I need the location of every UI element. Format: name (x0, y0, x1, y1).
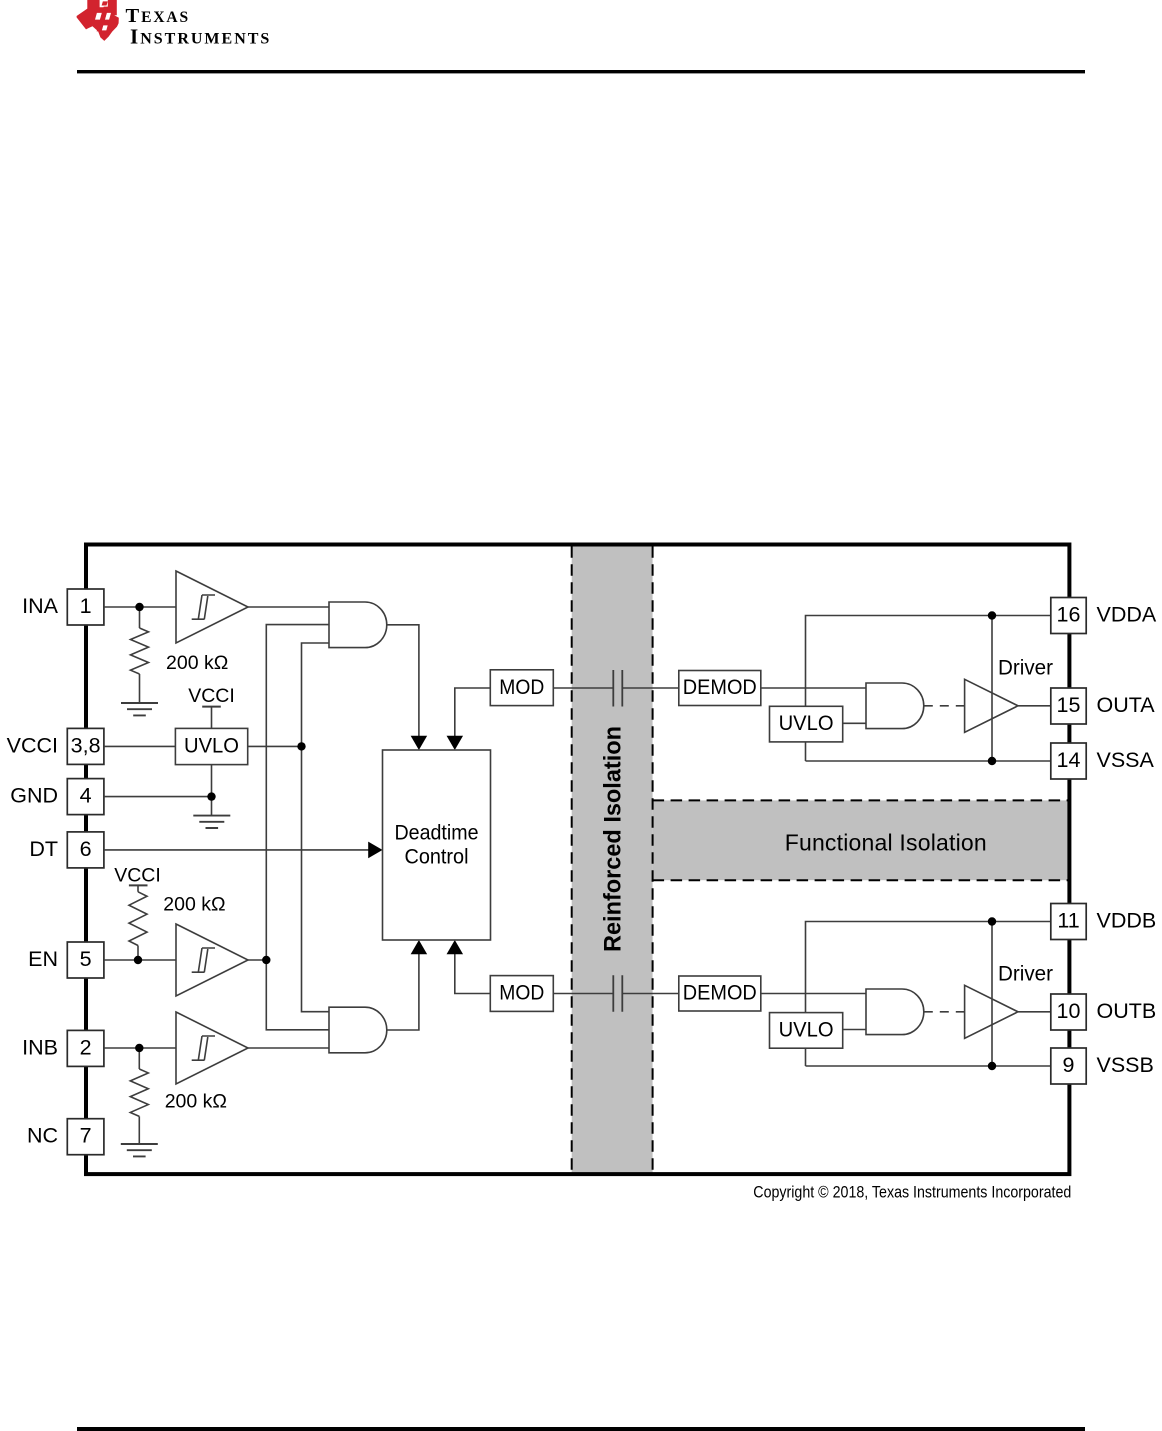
TI logo red Texas-map emblem (77, 0, 119, 41)
pin box 14 (VSSA) (1051, 743, 1086, 779)
junction dot EN pin node (134, 956, 142, 964)
wire VCCI bar to UVLO U3 top (211, 707, 213, 729)
wire pin3,8 to UVLO U3 (104, 745, 175, 747)
wire resistor R3 to ground G3 (138, 1116, 140, 1144)
wire pin4 to ground node (104, 796, 212, 798)
pin box 5 (EN) (67, 942, 104, 978)
svg-text:DT: DT (29, 837, 58, 861)
wire INA node to resistor R1 (139, 607, 141, 628)
pin box 7 (NC) (67, 1119, 104, 1155)
reinforced isolation left dashed border (571, 546, 573, 1172)
wire UVLO U3 output to node (248, 745, 302, 747)
wire VDDA branch down to VSSA node (991, 616, 993, 762)
junction dot INB node (135, 1044, 143, 1052)
svg-text:7: 7 (80, 1124, 92, 1148)
DEMOD box D1 (679, 671, 761, 706)
UVLO box U3 (175, 728, 247, 764)
svg-text:INB: INB (22, 1035, 58, 1059)
AND gate A4 (channel B right) (866, 989, 924, 1035)
schmitt buffer U2 (EN) triangle (176, 924, 248, 996)
pin box 15 (OUTA) (1051, 688, 1086, 724)
svg-text:VSSB: VSSB (1097, 1053, 1154, 1077)
footer horizontal rule (77, 1427, 1085, 1431)
hysteresis symbol in U2 (192, 948, 215, 972)
svg-text:9: 9 (1063, 1053, 1075, 1077)
junction dot VSSA rail (988, 757, 996, 765)
svg-text:OUTB: OUTB (1097, 999, 1157, 1023)
svg-text:VCCI: VCCI (114, 865, 161, 887)
wire pin2 to buffer U4 input (104, 1047, 176, 1049)
dashed wire AND gate A3 output to driver K1 (924, 705, 965, 707)
svg-text:NC: NC (27, 1124, 58, 1148)
functional isolation bottom dashed border (653, 879, 1068, 881)
svg-text:200 kΩ: 200 kΩ (166, 652, 228, 674)
arrowhead DT into deadtime control (368, 842, 382, 859)
wire MOD M2 to deadtime control bottom (455, 953, 491, 994)
svg-text:VSSA: VSSA (1097, 748, 1155, 772)
arrowhead MOD M1 wire into deadtime top (447, 736, 464, 750)
svg-text:200 kΩ: 200 kΩ (165, 1091, 227, 1113)
wire driver K1 output to pin 15 (1018, 705, 1051, 707)
junction dot INA node (135, 603, 143, 611)
svg-text:6: 6 (80, 837, 92, 861)
arrowhead gate A1 output into deadtime top (411, 736, 428, 750)
svg-text:200 kΩ: 200 kΩ (163, 893, 225, 915)
wire buffer U1 output to AND gate A1 (248, 606, 329, 608)
svg-text:3,8: 3,8 (71, 733, 101, 757)
wire UVLO U3 bottom to ground G2 (211, 765, 213, 816)
svg-text:16: 16 (1057, 603, 1081, 627)
AND gate A3 (channel A right) (866, 683, 924, 729)
functional isolation top dashed border (653, 799, 1068, 801)
junction dot VDDA rail (988, 611, 996, 619)
svg-text:DEMOD: DEMOD (683, 981, 757, 1005)
MOD box M2 (490, 976, 553, 1012)
schmitt buffer U1 (INA) triangle (176, 571, 248, 643)
junction dot VDDB rail (988, 917, 996, 925)
driver K1 triangle (965, 679, 1018, 732)
svg-text:GND: GND (10, 784, 58, 808)
svg-text:DEMOD: DEMOD (683, 675, 757, 699)
wire pin6 DT to deadtime control (104, 849, 370, 851)
svg-text:15: 15 (1057, 693, 1081, 717)
reinforced isolation grey band fill (572, 546, 653, 1172)
junction dot VSSB rail (988, 1062, 996, 1070)
DEMOD box D2 (679, 976, 761, 1011)
pin box 16 (VDDA) (1051, 598, 1086, 634)
svg-text:Control: Control (405, 845, 469, 869)
wire UVLO net vertical (UVLO output to gates A1,A2) (302, 643, 330, 1012)
UVLO box U5 (channel A) (770, 706, 843, 742)
main diagram border box (86, 545, 1069, 1175)
MOD box M1 (490, 670, 553, 706)
wire VCCI bar to resistor R2 (137, 885, 139, 891)
svg-text:EN: EN (28, 947, 58, 971)
svg-text:2: 2 (80, 1035, 92, 1059)
svg-text:5: 5 (80, 947, 92, 971)
wire pin5 to buffer U2 input (104, 959, 176, 961)
wire MOD M1 to deadtime control top (455, 688, 491, 737)
wire driver K2 output to pin 10 (1018, 1011, 1051, 1013)
deadtime control block (383, 750, 491, 940)
driver K2 triangle (965, 985, 1018, 1038)
wire capacitor C2 to DEMOD D2 (622, 993, 679, 995)
pin box 11 (VDDB) (1051, 904, 1086, 940)
svg-text:MOD: MOD (499, 675, 544, 699)
wire UVLO U6 bottom to VSSB rail (805, 1048, 807, 1066)
wire AND gate A2 output to deadtime control bottom (387, 953, 419, 1030)
wire UVLO U5 bottom to VSSA rail (805, 742, 807, 761)
hysteresis symbol in U4 (192, 1036, 215, 1060)
svg-text:1: 1 (80, 594, 92, 618)
hysteresis symbol in U1 (192, 595, 215, 619)
svg-text:MOD: MOD (499, 981, 544, 1005)
ground symbol G1 (121, 703, 158, 715)
svg-text:Reinforced Isolation: Reinforced Isolation (600, 726, 627, 952)
resistor R3 zigzag (130, 1069, 148, 1116)
svg-text:Copyright © 2018, Texas Instru: Copyright © 2018, Texas Instruments Inco… (753, 1184, 1071, 1202)
resistor R1 zigzag (131, 628, 149, 674)
isolation capacitor C1 plates (613, 670, 622, 707)
svg-text:VDDA: VDDA (1097, 603, 1157, 627)
TI logo wordmark TEXAS INSTRUMENTS (126, 5, 272, 49)
wire INB node to resistor R3 (138, 1048, 140, 1069)
svg-text:Driver: Driver (998, 657, 1053, 680)
schmitt buffer U4 (INB) triangle (176, 1012, 248, 1084)
wire buffer U4 output to AND gate A2 (248, 1047, 329, 1049)
wire AND gate A1 output to deadtime control top (387, 625, 419, 737)
wire capacitor C1 to DEMOD D1 (622, 687, 679, 689)
svg-text:14: 14 (1057, 748, 1081, 772)
dashed wire AND gate A4 output to driver K2 (924, 1011, 965, 1013)
pin box 3,8 (VCCI) (67, 728, 104, 764)
pin box 10 (OUTB) (1051, 994, 1086, 1030)
wire MOD M2 to isolation capacitor C2 (553, 993, 613, 995)
svg-text:Deadtime: Deadtime (395, 821, 479, 845)
junction dot UVLO output node (297, 742, 305, 750)
functional isolation grey band fill (653, 800, 1068, 880)
junction dot GND node (207, 792, 215, 800)
svg-text:Functional Isolation: Functional Isolation (785, 830, 987, 856)
svg-text:UVLO: UVLO (779, 1018, 834, 1042)
AND gate A2 (channel B left) (329, 1007, 387, 1053)
arrowhead gate A2 output into deadtime bottom (411, 940, 428, 954)
AND gate A1 (channel A left) (329, 602, 387, 648)
resistor R2 zigzag (129, 892, 147, 946)
arrowhead MOD M2 wire into deadtime bottom (447, 940, 464, 954)
svg-text:INSTRUMENTS: INSTRUMENTS (130, 25, 271, 49)
svg-text:VCCI: VCCI (188, 685, 235, 707)
svg-text:INA: INA (22, 594, 59, 618)
UVLO box U6 (channel B) (770, 1013, 843, 1049)
VCCI power bar above UVLO U3 (202, 706, 221, 708)
wire pin1 to buffer U1 input (104, 606, 176, 608)
ground symbol G3 (121, 1144, 158, 1156)
pin box 4 (GND) (67, 779, 104, 815)
wire VSSB rail to pin 9 (806, 1065, 1051, 1067)
wire resistor R1 to ground (139, 674, 141, 703)
wire DEMOD D2 to AND gate A4 (761, 993, 866, 995)
wire DEMOD D1 to AND gate A3 (761, 687, 866, 689)
svg-text:11: 11 (1057, 909, 1079, 933)
pin box 1 (INA) (67, 589, 104, 625)
pin box 6 (DT) (67, 832, 104, 868)
svg-text:Driver: Driver (998, 963, 1053, 986)
reinforced isolation right dashed border (652, 546, 654, 1172)
wire VDDB branch down to VSSB node (991, 922, 993, 1067)
wire EN net vertical (buffer U2 output to gates A1,A2) (266, 625, 329, 1030)
wire UVLO U6 to AND gate A4 (843, 1029, 866, 1031)
wire UVLO U5 to AND gate A3 (843, 722, 866, 724)
header horizontal rule (77, 70, 1085, 73)
junction dot EN buffer output node (262, 956, 270, 964)
svg-text:OUTA: OUTA (1097, 693, 1156, 717)
wire resistor R2 to EN node (137, 946, 139, 961)
wire buffer U2 output to EN net (248, 959, 266, 961)
VCCI power bar above resistor R2 (129, 884, 148, 886)
wire MOD M1 to isolation capacitor C1 (553, 687, 613, 689)
wire VSSA rail to pin 14 (806, 760, 1051, 762)
svg-text:VCCI: VCCI (7, 733, 58, 757)
svg-text:UVLO: UVLO (184, 733, 239, 757)
pin box 2 (INB) (67, 1030, 104, 1066)
ground symbol G2 (193, 816, 230, 828)
pin box 9 (VSSB) (1051, 1048, 1086, 1084)
svg-text:UVLO: UVLO (779, 711, 834, 735)
wire VDDA rail (UVLO top to pin 16) (806, 616, 1051, 707)
svg-text:VDDB: VDDB (1097, 909, 1157, 933)
svg-text:4: 4 (80, 784, 92, 808)
wire VDDB rail (UVLO top to pin 11) (806, 922, 1051, 1013)
svg-text:10: 10 (1057, 999, 1081, 1023)
isolation capacitor C2 plates (613, 975, 622, 1012)
